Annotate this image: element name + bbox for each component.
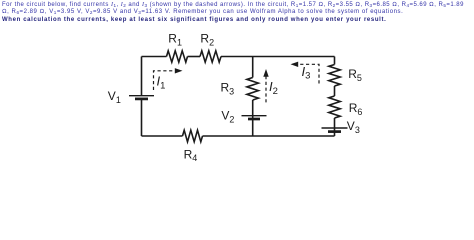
resistor R4	[183, 130, 203, 142]
svg-text:V2: V2	[221, 109, 234, 125]
wire left side lower (battery V1 to bottom corner)	[141, 99, 143, 136]
svg-text:V3: V3	[347, 119, 360, 135]
current arrow I1 (dashed, L-shape, points right)	[154, 71, 175, 90]
svg-text:R1: R1	[168, 32, 182, 48]
problem statement line 3 (bold)	[2, 17, 386, 23]
battery V2 short plate	[248, 118, 260, 121]
svg-text:R4: R4	[184, 147, 198, 163]
resistor R3	[247, 78, 259, 101]
battery V3 long plate	[322, 127, 348, 129]
wire left side upper (corner down to battery V1)	[141, 57, 143, 96]
wire R2 to top-right corner	[221, 56, 335, 58]
problem statement line 2	[2, 9, 403, 15]
problem statement line 1	[2, 2, 464, 8]
svg-text:R3: R3	[221, 81, 235, 97]
current arrow I3 (dashed, L-shape, points left)	[299, 64, 320, 83]
resistor R6	[329, 96, 340, 118]
wire bottom-left corner to R4	[142, 135, 183, 137]
wire top-left to R1	[142, 56, 167, 58]
wire middle branch top (junction to R3)	[252, 57, 254, 78]
resistor R2	[200, 51, 221, 62]
wire right side top (corner to R5)	[334, 57, 336, 65]
svg-text:I3: I3	[302, 64, 311, 82]
battery V2 long plate	[242, 115, 267, 117]
svg-text:I2: I2	[269, 79, 278, 97]
battery V3 short plate	[328, 130, 341, 133]
svg-text:R2: R2	[200, 32, 214, 48]
svg-text:R5: R5	[348, 67, 362, 83]
battery V1 short plate	[135, 98, 148, 101]
wire between R1 and R2	[188, 56, 201, 58]
svg-text:V1: V1	[108, 89, 121, 105]
wire between R5 and R6	[334, 86, 336, 96]
resistor R1	[167, 51, 188, 62]
current arrow I2 (dashed, points up)	[265, 77, 267, 103]
wire middle branch bottom (R3 through V2 to bottom wire)	[252, 100, 254, 136]
wire R6 through V3 to bottom-right corner	[334, 118, 336, 136]
battery V1 long plate	[129, 95, 154, 97]
resistor R5	[329, 65, 340, 87]
svg-text:I1: I1	[157, 74, 166, 92]
svg-text:R6: R6	[349, 101, 363, 117]
wire R4 to bottom-right corner	[203, 135, 335, 137]
